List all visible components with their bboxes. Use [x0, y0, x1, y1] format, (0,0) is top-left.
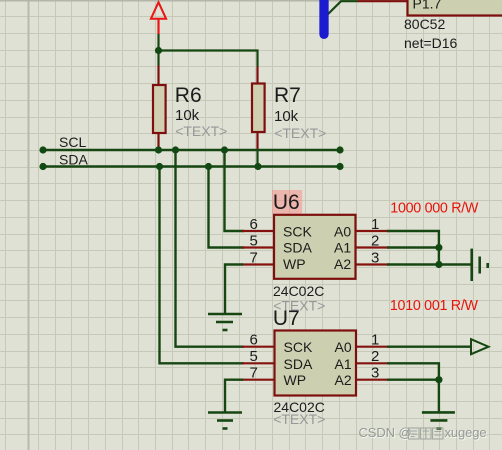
svg-text:2: 2 — [371, 232, 379, 249]
svg-text:24C02C: 24C02C — [273, 283, 324, 299]
svg-text:net=D16: net=D16 — [404, 35, 458, 51]
svg-text:<TEXT>: <TEXT> — [273, 298, 325, 314]
svg-text:1: 1 — [371, 332, 379, 349]
svg-text:xugege: xugege — [445, 425, 487, 440]
svg-text:WP: WP — [283, 256, 306, 272]
svg-text:A0: A0 — [334, 224, 351, 240]
svg-text:10k: 10k — [175, 107, 200, 124]
svg-text:1010 001 R/W: 1010 001 R/W — [390, 298, 479, 314]
svg-text:R6: R6 — [175, 84, 202, 107]
svg-text:U6: U6 — [273, 191, 300, 214]
svg-text:A1: A1 — [334, 240, 351, 256]
svg-text:6: 6 — [250, 332, 258, 349]
svg-text:SCL: SCL — [59, 134, 86, 150]
svg-text:1000 000 R/W: 1000 000 R/W — [390, 200, 479, 216]
svg-text:A2: A2 — [335, 372, 352, 388]
svg-text:24C02C: 24C02C — [274, 399, 325, 415]
svg-text:SCK: SCK — [284, 339, 313, 355]
svg-text:7: 7 — [250, 365, 258, 382]
svg-text:3: 3 — [371, 249, 379, 266]
svg-text:6: 6 — [250, 216, 258, 233]
svg-text:A2: A2 — [334, 256, 351, 272]
svg-text:SDA: SDA — [284, 356, 313, 372]
svg-text:5: 5 — [250, 348, 258, 365]
svg-text:10k: 10k — [274, 108, 299, 125]
svg-text:80C52: 80C52 — [404, 16, 445, 32]
svg-text:A1: A1 — [335, 356, 352, 372]
svg-text:5: 5 — [250, 232, 258, 249]
svg-text:<TEXT>: <TEXT> — [274, 125, 326, 141]
svg-text:SCK: SCK — [283, 224, 312, 240]
svg-text:1: 1 — [371, 216, 379, 233]
svg-text:P1.7: P1.7 — [413, 0, 442, 12]
svg-text:WP: WP — [284, 372, 307, 388]
svg-text:R7: R7 — [274, 84, 301, 107]
svg-text:SDA: SDA — [59, 152, 88, 168]
svg-text:2: 2 — [371, 348, 379, 365]
svg-text:CSDN @: CSDN @ — [359, 425, 412, 440]
svg-text:7: 7 — [250, 249, 258, 266]
svg-text:SDA: SDA — [283, 240, 312, 256]
svg-text:<TEXT>: <TEXT> — [175, 123, 227, 139]
svg-text:A0: A0 — [335, 339, 352, 355]
svg-text:3: 3 — [371, 365, 379, 382]
